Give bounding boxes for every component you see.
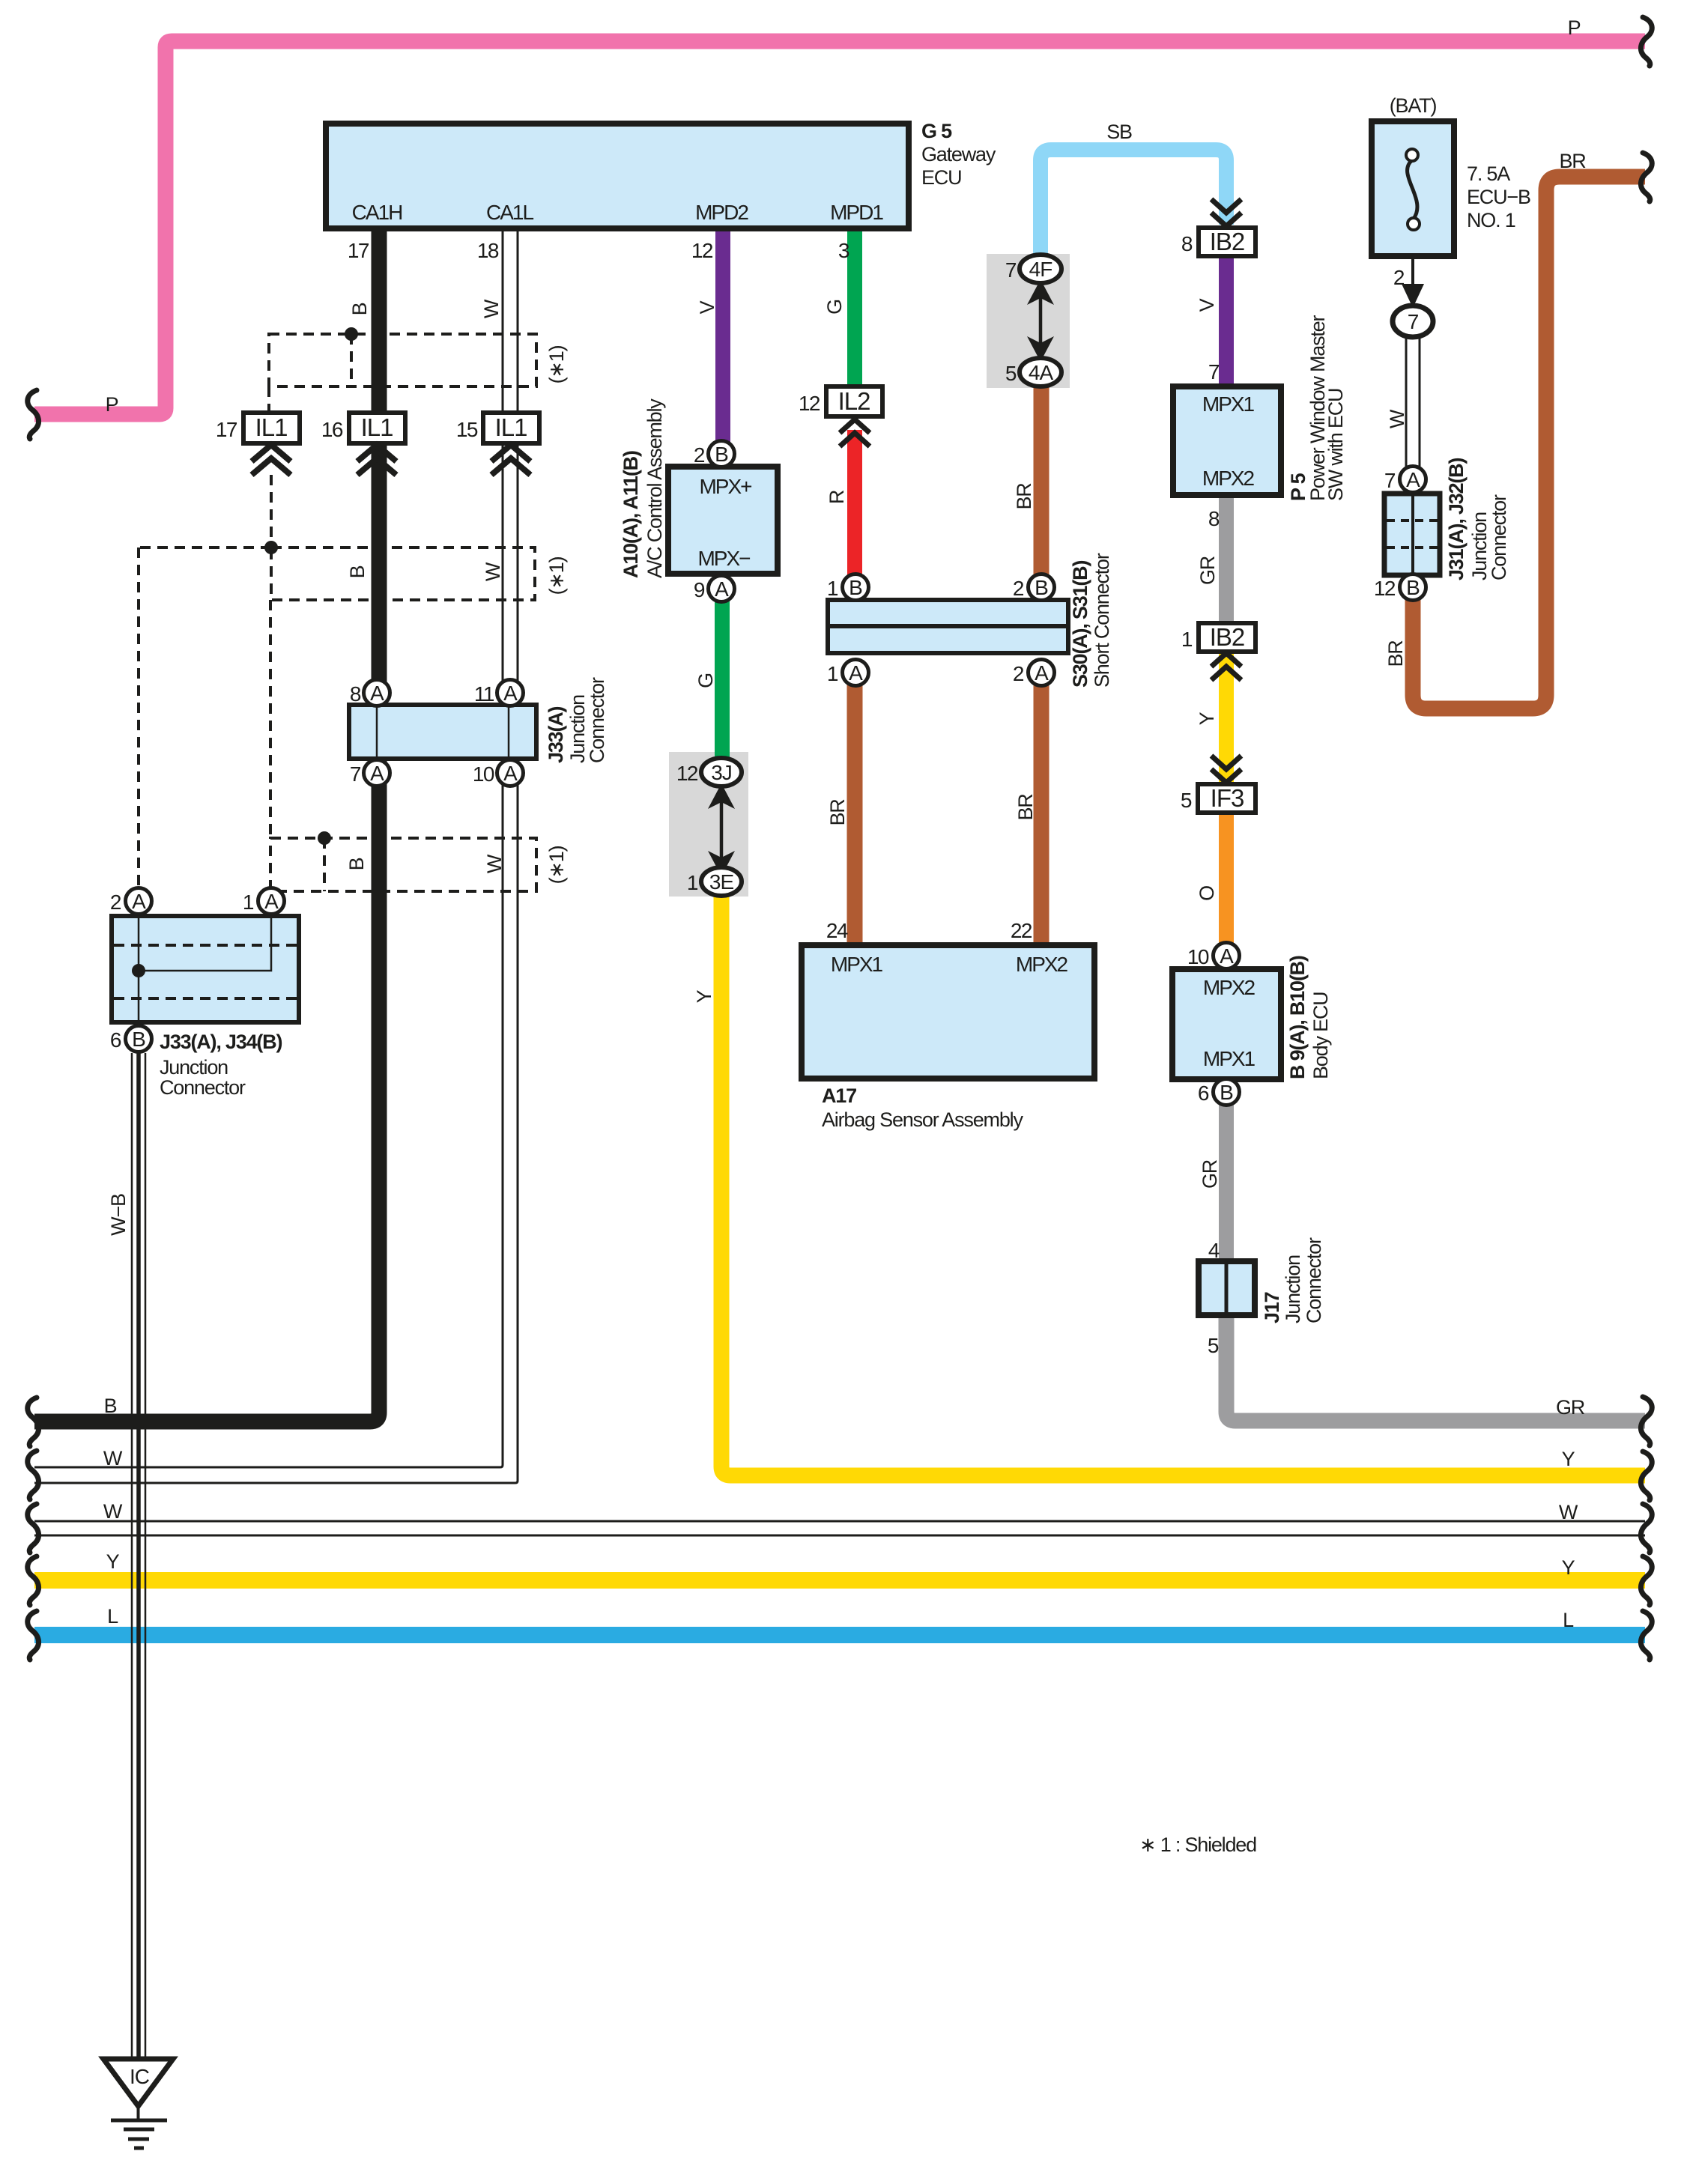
break symbol right end of wire Y [1641,1452,1652,1500]
wire SB sky blue from Gateway area to 4F and to IB2 [1041,150,1226,258]
wire R red from IL2 to S30 pin 1B [847,430,862,577]
wire O orange IF3 to Body ECU pin 10A [1219,812,1234,944]
wire BR brown S30 pin 1A to Airbag pin 24 [847,683,863,945]
svg-text:10: 10 [1187,945,1209,968]
svg-text:IL2: IL2 [838,387,870,415]
svg-text:W: W [1386,409,1408,428]
connector IF3 pin 5 [1181,784,1256,813]
svg-text:BR: BR [1384,640,1407,667]
Gateway ECU G5 box [326,124,909,228]
svg-text:IL1: IL1 [255,413,288,441]
power window master switch P5 box [1173,386,1281,495]
S30/S31 pin circles 1B 2B 1A 2A [827,574,1055,686]
svg-text:B: B [849,576,862,599]
svg-text:W: W [482,562,504,581]
svg-text:17: 17 [348,239,369,262]
svg-text:8: 8 [350,682,361,706]
wire B crossing patch over W-B [120,1414,165,1430]
J17 rotated labels [1261,1237,1325,1323]
svg-text:MPD2: MPD2 [695,201,748,224]
svg-text:MPX2: MPX2 [1203,976,1256,999]
connector IL1 pin 17 [216,413,300,443]
svg-text:R: R [826,490,848,504]
svg-text:Connector: Connector [586,677,608,763]
A/C rotated labels [620,398,666,578]
svg-text:W: W [103,1500,123,1523]
connector arrow chevrons below IL1 pin 16 [357,445,396,475]
shield drain dot node box2 [264,541,278,554]
svg-text:O: O [1196,886,1218,901]
svg-text:2: 2 [1013,662,1024,685]
A17 name label [822,1085,1023,1131]
svg-text:A/C Control Assembly: A/C Control Assembly [643,398,666,578]
connector IL1 pin 16 [321,413,405,443]
wire Y yellow from 3E down, then right to break [721,891,1645,1475]
svg-text:L: L [107,1605,118,1628]
wire G green MPD1 from Gateway pin 3 to IL2 [847,225,862,389]
svg-text:P: P [106,393,118,416]
svg-text:A: A [264,890,279,913]
junction connector J31(A) J32(B) [1384,494,1440,575]
svg-text:7: 7 [1408,310,1419,333]
svg-text:A: A [370,762,384,785]
svg-text:2: 2 [694,443,705,467]
splice block grey background 3J/3E [669,752,748,897]
svg-text:BR: BR [1013,483,1035,510]
svg-text:G: G [823,300,846,315]
svg-text:B: B [104,1395,117,1417]
svg-text:17: 17 [216,418,237,441]
svg-text:B: B [345,858,368,870]
svg-text:Y: Y [1562,1556,1575,1579]
svg-text:Connector: Connector [1303,1237,1325,1323]
svg-text:1: 1 [243,891,254,914]
svg-text:IL1: IL1 [495,413,527,441]
svg-text:(BAT): (BAT) [1390,94,1437,117]
wire B CAN-H CA1H black from Gateway pin 17 down and left to break [34,225,379,1422]
svg-text:MPX2: MPX2 [1016,953,1068,976]
svg-text:1: 1 [1181,628,1193,651]
svg-text:22: 22 [1011,919,1032,942]
svg-text:J33(A): J33(A) [545,706,567,763]
svg-text:L: L [1563,1609,1574,1631]
svg-text:A: A [1406,468,1420,491]
wire GR grey P5 MPX2 pin 8 to IB2 pin 1 [1219,493,1234,623]
svg-text:IB2: IB2 [1210,623,1245,651]
chevrons above IB2 pointing down [1211,199,1241,226]
ground IC symbol [103,2059,173,2148]
svg-text:J33(A), J34(B): J33(A), J34(B) [160,1031,282,1053]
svg-text:P: P [1568,16,1581,39]
svg-text:J31(A), J32(B): J31(A), J32(B) [1445,458,1468,580]
svg-text:Connector: Connector [1488,494,1510,580]
Body ECU pin circles 10A 6B [1187,943,1240,1105]
svg-text:5: 5 [1181,789,1192,812]
svg-text:MPX1: MPX1 [831,953,883,976]
wire Y yellow full-width bus line [34,1572,1645,1589]
chevrons below IB2 pointing up [1211,653,1241,680]
svg-text:Airbag Sensor Assembly: Airbag Sensor Assembly [822,1108,1023,1131]
svg-text:Y: Y [693,989,715,1003]
svg-text:MPX1: MPX1 [1202,392,1255,416]
short connector S30(A) S31(B) box [828,600,1068,653]
shield dashed box 3 around B and W wires [270,838,536,891]
wire L blue full-width bus line [34,1627,1645,1643]
horizontal wire name labels at page edges [103,16,1586,1631]
svg-text:CA1L: CA1L [486,201,533,224]
svg-text:GR: GR [1196,556,1219,585]
break symbol right end of wire BR [1641,153,1652,201]
break symbol left end of wire W bus [28,1504,39,1553]
wire BR brown S31 pin 2B up to 4A [1034,374,1050,577]
svg-text:W: W [1559,1501,1578,1523]
svg-text:W−B: W−B [107,1194,130,1236]
(*1) shield footnote markers rotated [545,345,568,884]
svg-text:12: 12 [691,239,713,262]
svg-text:B 9(A), B10(B): B 9(A), B10(B) [1286,956,1309,1079]
A17 pin numbers 24 22 [826,919,1032,942]
svg-text:A17: A17 [822,1085,856,1107]
svg-text:A: A [1220,944,1234,968]
svg-text:16: 16 [321,418,343,441]
connector IL1 pin 15 [456,413,539,443]
P5 pin numbers 7 8 [1208,360,1220,530]
fuse name labels [1467,163,1530,231]
svg-text:A10(A), A11(B): A10(A), A11(B) [620,451,642,578]
junction connector J33(A) [349,705,536,759]
svg-text:9: 9 [694,578,705,601]
terminal oval 7 [1393,306,1433,337]
svg-text:V: V [696,300,718,314]
J33(A), J34(B) label [160,1031,282,1099]
wire W-B ground wire from J33/J34 pin 6B to IC ground [132,1053,145,2059]
svg-text:Short Connector: Short Connector [1091,553,1113,688]
wire G green A/C pin 9A to 3J [715,601,730,764]
J33(A) rotated label [545,677,608,763]
wire V violet MPD2 from Gateway pin 12 to A/C pin 2B [715,225,730,442]
svg-text:7: 7 [1005,258,1017,282]
svg-text:1: 1 [687,871,698,894]
svg-text:BR: BR [1014,794,1037,821]
wire W CA1L shielded pair from Gateway pin 18 (double line) [34,225,518,1483]
junction connector J33(A), J34(B) lower left [112,916,299,1022]
fuse 7.5A ECU-B NO.1 (BAT) [1372,121,1454,256]
svg-text:W: W [103,1447,123,1469]
airbag sensor assembly A17 box [802,945,1094,1079]
wire fuse output lead with arrow to terminal 7 [1402,256,1424,308]
svg-text:S30(A), S31(B): S30(A), S31(B) [1069,561,1091,688]
svg-text:10: 10 [473,762,494,786]
shield dashed box 2 around B and W wires [139,547,535,887]
svg-text:2: 2 [1013,577,1024,600]
connector IB2 pin 1 [1181,623,1256,652]
wire BR brown S30 pin 2A to Airbag pin 22 [1034,683,1050,945]
svg-text:24: 24 [826,919,848,942]
svg-text:IF3: IF3 [1211,784,1244,812]
svg-text:12: 12 [799,392,820,415]
break symbol left end of wire P [28,390,39,439]
svg-text:B: B [132,1028,145,1051]
svg-text:∗ 1 : Shielded: ∗ 1 : Shielded [1139,1833,1256,1856]
svg-text:8: 8 [1181,232,1193,255]
wire GR grey J17 pin 5 down then right to break [1226,1315,1645,1421]
svg-text:4: 4 [1208,1239,1220,1262]
svg-text:MPD1: MPD1 [830,201,883,224]
svg-text:12: 12 [676,762,698,785]
wire P pink power wire top [34,41,1645,414]
chevrons above IF3 pointing down [1211,756,1241,783]
J31 pin circles 7A 12B [1374,467,1426,601]
break symbol left end of wire W pair [28,1451,39,1499]
Gateway pin numbers 17 18 12 3 [348,239,849,262]
wire BR brown J31 pin 12B down, right, up to break at right [1413,177,1645,709]
svg-text:SW with ECU: SW with ECU [1324,389,1347,501]
svg-text:BR: BR [1559,150,1586,172]
shield drain dot node box3 [318,831,331,845]
svg-text:MPX1: MPX1 [1203,1047,1256,1070]
body ECU B9(A) B10(B) box [1172,969,1281,1079]
svg-text:(∗1): (∗1) [545,345,568,383]
svg-text:SB: SB [1106,121,1132,143]
svg-text:12: 12 [1374,577,1396,600]
break symbol left end of wire L bus [28,1611,39,1660]
svg-text:W: W [480,299,503,318]
svg-text:Junction: Junction [1282,1255,1304,1323]
svg-text:3J: 3J [711,761,732,784]
svg-text:A: A [503,682,518,705]
svg-text:6: 6 [110,1028,121,1052]
svg-text:A: A [715,577,729,601]
wire V violet IB2 to P5 MPX1 pin 7 [1219,255,1234,389]
break symbol right end of wire P [1641,17,1652,66]
connector arrow chevrons below IL1 pin 17 [252,445,291,475]
svg-text:ECU−B: ECU−B [1467,186,1530,208]
svg-text:5: 5 [1208,1334,1219,1357]
P5 rotated labels [1287,315,1347,501]
junction connector J17 [1199,1239,1255,1357]
svg-text:Y: Y [106,1550,120,1573]
svg-text:MPX−: MPX− [697,547,750,570]
svg-text:IC: IC [130,2065,150,2088]
connector IL2 pin 12 [799,386,882,416]
break symbol left end of wire B [28,1398,39,1446]
shield dashed box 1 around B and W wires [269,334,536,413]
Body ECU rotated labels [1286,956,1332,1079]
connector IB2 pin 8 [1181,228,1256,256]
svg-text:(∗1): (∗1) [545,846,568,884]
break symbol right end of wire GR [1641,1397,1652,1446]
svg-text:11: 11 [474,682,494,706]
splice block grey background 4F/4A [987,254,1070,388]
svg-text:2: 2 [110,891,121,914]
svg-text:1: 1 [827,577,838,600]
svg-text:3: 3 [838,239,849,262]
A/C pin circles 2B 9A [694,441,735,602]
svg-text:GR: GR [1199,1159,1221,1189]
wire W white pair full-width bus line [34,1521,1645,1535]
wire color labels rotated [107,298,1408,1235]
svg-text:A: A [1035,661,1049,685]
svg-text:MPX+: MPX+ [699,475,751,498]
svg-text:(∗1): (∗1) [545,556,568,595]
svg-text:Gateway: Gateway [921,143,996,166]
svg-text:ECU: ECU [921,166,961,189]
S30(A), S31(B) rotated label [1069,553,1113,688]
svg-text:4A: 4A [1029,361,1054,384]
Gateway ECU name label G 5 [921,120,996,189]
svg-text:Y: Y [1562,1448,1575,1470]
break symbol right end of wire W bus [1641,1504,1652,1553]
svg-text:A: A [849,661,863,685]
svg-text:2: 2 [1393,266,1405,289]
svg-text:7: 7 [1208,360,1220,383]
svg-text:GR: GR [1556,1396,1585,1419]
svg-text:7. 5A: 7. 5A [1467,163,1510,185]
svg-text:1: 1 [827,662,838,685]
svg-text:CA1H: CA1H [352,201,402,224]
J31(A), J32(B) rotated labels [1445,458,1510,580]
svg-text:IL1: IL1 [361,413,393,441]
svg-text:W: W [483,854,506,873]
svg-text:V: V [1196,298,1218,312]
svg-text:B: B [1220,1081,1233,1104]
shield drain dot node box1 [345,327,358,341]
svg-text:A: A [370,682,384,705]
svg-text:A: A [503,762,518,785]
splice connector 4F/4A grey block [1005,255,1061,386]
svg-text:7: 7 [1384,469,1396,492]
svg-text:J17: J17 [1261,1292,1283,1323]
svg-text:15: 15 [456,418,478,441]
svg-text:G: G [694,673,717,688]
svg-text:B: B [1035,576,1048,599]
shield dashed line from IL1-17 chevron to box2 [270,475,273,547]
svg-text:3E: 3E [709,870,734,894]
svg-text:Y: Y [1196,712,1218,725]
svg-text:18: 18 [477,239,499,262]
svg-text:5: 5 [1005,362,1017,385]
wire W white pair from terminal 7 to J31 pin 7A [1406,336,1420,467]
svg-text:B: B [348,303,371,315]
connector arrow chevrons below IL1 pin 15 [491,445,530,475]
wire GR grey Body ECU pin 6B to J17 pin 4 [1219,1105,1234,1264]
svg-text:Connector: Connector [160,1076,246,1099]
svg-text:8: 8 [1208,507,1220,530]
connector arrow chevrons below IL2 [840,419,870,446]
break symbol right end of wire Y bus [1641,1556,1652,1605]
wire Y yellow IB2 to IF3 [1219,649,1234,783]
A/C Control Assembly A10(A) A11(B) box [668,467,778,574]
svg-text:IB2: IB2 [1210,228,1245,255]
svg-text:NO. 1: NO. 1 [1467,209,1515,231]
short connector splice 3J/3E grey block [676,758,742,896]
svg-text:4F: 4F [1029,258,1052,281]
J33/J34 pin circles 2A 1A 6B [110,888,285,1052]
svg-text:G 5: G 5 [921,120,952,142]
svg-text:6: 6 [1198,1082,1209,1105]
svg-text:Junction: Junction [160,1056,228,1079]
J33(A) pin circles 8A 11A 7A 10A [350,680,524,786]
break symbol left end of wire Y bus [28,1556,39,1605]
svg-text:7: 7 [350,762,361,786]
svg-text:B: B [346,565,369,578]
svg-text:B: B [1406,576,1420,599]
svg-text:MPX2: MPX2 [1202,467,1255,490]
svg-text:A: A [132,890,146,913]
svg-text:B: B [715,443,728,466]
break symbol right end of wire L bus [1641,1611,1652,1660]
svg-text:Body ECU: Body ECU [1309,992,1332,1079]
svg-text:BR: BR [826,799,849,826]
